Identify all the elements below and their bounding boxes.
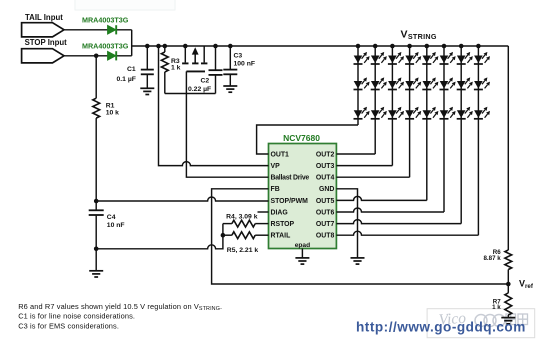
svg-text:STOP/PWM: STOP/PWM — [271, 198, 309, 205]
svg-text:0.1 µF: 0.1 µF — [117, 76, 136, 83]
svg-text:C4: C4 — [107, 214, 116, 221]
svg-text:0.22 µF: 0.22 µF — [188, 86, 211, 93]
svg-text:C3: C3 — [234, 53, 243, 60]
svg-text:C2: C2 — [201, 77, 210, 84]
svg-text:C1: C1 — [127, 66, 136, 73]
svg-text:R6 and R7 values shown yield 1: R6 and R7 values shown yield 10.5 V regu… — [18, 302, 222, 312]
svg-text:http://www.go-gddq.com: http://www.go-gddq.com — [356, 319, 526, 334]
svg-text:GND: GND — [319, 186, 334, 193]
svg-text:C3 is for EMS considerations.: C3 is for EMS considerations. — [18, 321, 119, 330]
svg-text:RSTOP: RSTOP — [271, 221, 295, 228]
svg-text:OUT8: OUT8 — [316, 233, 335, 240]
svg-text:STOP Input: STOP Input — [25, 38, 68, 47]
svg-text:TAIL Input: TAIL Input — [25, 13, 63, 22]
svg-text:R4, 3.09 k: R4, 3.09 k — [226, 213, 258, 220]
svg-text:OUT1: OUT1 — [271, 151, 290, 158]
svg-text:RTAIL: RTAIL — [271, 233, 291, 240]
svg-text:OUT5: OUT5 — [316, 198, 335, 205]
svg-text:OUT2: OUT2 — [316, 151, 335, 158]
svg-text:8.87 k: 8.87 k — [483, 255, 501, 262]
svg-text:epad: epad — [295, 242, 310, 249]
svg-text:1 k: 1 k — [492, 304, 501, 311]
svg-text:FB: FB — [271, 186, 280, 193]
svg-text:Ballast Drive: Ballast Drive — [271, 175, 310, 182]
svg-text:DIAG: DIAG — [271, 209, 288, 216]
svg-text:1 k: 1 k — [171, 65, 181, 72]
svg-text:10 nF: 10 nF — [107, 222, 125, 229]
svg-text:OUT3: OUT3 — [316, 163, 335, 170]
svg-text:NCV7680: NCV7680 — [283, 133, 320, 143]
svg-text:C1 is for line noise considera: C1 is for line noise considerations. — [18, 312, 135, 321]
svg-text:OUT4: OUT4 — [316, 175, 335, 182]
svg-text:VP: VP — [271, 163, 281, 170]
svg-text:10 k: 10 k — [106, 110, 119, 117]
svg-text:100 nF: 100 nF — [234, 60, 256, 67]
svg-text:R5, 2.21 k: R5, 2.21 k — [227, 247, 259, 254]
svg-text:MRA4003T3G: MRA4003T3G — [82, 16, 129, 25]
svg-text:OUT6: OUT6 — [316, 209, 335, 216]
svg-text:R1: R1 — [106, 103, 115, 110]
svg-text:MRA4003T3G: MRA4003T3G — [82, 42, 129, 51]
svg-text:OUT7: OUT7 — [316, 221, 335, 228]
